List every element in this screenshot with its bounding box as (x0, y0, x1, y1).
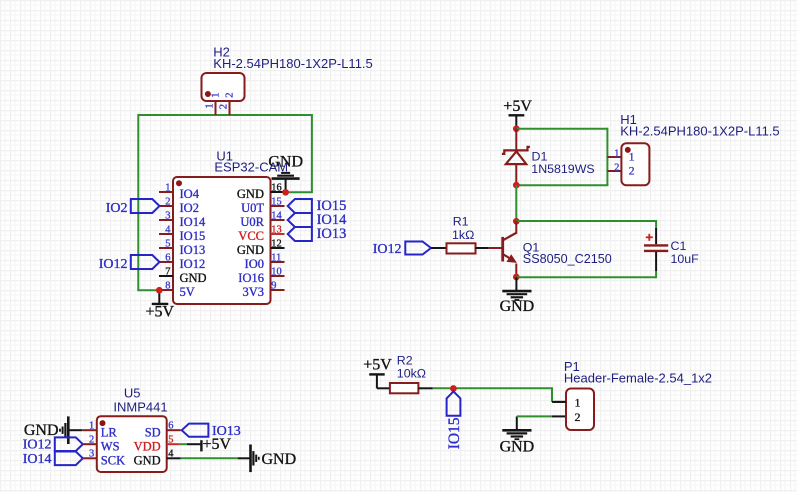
svg-text:2: 2 (218, 104, 229, 109)
svg-text:U0R: U0R (240, 215, 264, 229)
connector P1 (554, 389, 594, 431)
net flag IO15 (vertical) (446, 391, 463, 449)
wire GND to P1 pin 2 (517, 415, 566, 417)
svg-text:2: 2 (89, 434, 94, 445)
wire H2 pin1 to +5V rail (left vertical) (137, 114, 312, 290)
net flag IO13 (U1 right) (288, 226, 347, 242)
resistor R2 (390, 383, 419, 393)
svg-text:LR: LR (101, 425, 118, 439)
svg-text:5: 5 (168, 434, 173, 445)
svg-text:KH-2.54PH180-1X2P-L11.5: KH-2.54PH180-1X2P-L11.5 (620, 124, 779, 139)
svg-text:3: 3 (89, 449, 94, 460)
net flag IO14 (U5 pin 3) (23, 452, 83, 467)
net flag IO15 (U1 right) (288, 198, 347, 214)
svg-text:+5V: +5V (146, 304, 175, 321)
power symbol +5V (R2) (363, 356, 392, 388)
svg-text:10: 10 (271, 267, 281, 278)
U1 pin 4 (IO15) (159, 225, 205, 244)
wire +5V to H1 pin 1 (516, 128, 607, 186)
svg-text:IO0: IO0 (245, 257, 264, 271)
U1 pin 7 (GND) (159, 267, 207, 286)
svg-text:R2: R2 (397, 354, 413, 368)
svg-text:IO15: IO15 (446, 417, 463, 449)
svg-text:IO12: IO12 (373, 242, 402, 257)
junction at U1 pin 16 (282, 189, 289, 196)
U5 pin 4 (GND) (134, 449, 181, 468)
U1 pin 6 (IO12) (159, 253, 205, 272)
U5 pin-1 marker dot (100, 420, 106, 426)
wire +5V to R2 (377, 387, 390, 389)
wire emitter node to C1 bottom (516, 271, 656, 279)
svg-text:6: 6 (165, 253, 170, 264)
net flag IO12 (U1 pin 6) (99, 255, 160, 272)
U5 pin 3 (SCK) (83, 449, 125, 468)
svg-text:IO2: IO2 (180, 201, 199, 215)
svg-text:11: 11 (271, 253, 281, 264)
svg-text:1: 1 (629, 149, 635, 163)
svg-text:2: 2 (629, 163, 635, 177)
resistor R1 (447, 243, 476, 253)
svg-text:IO16: IO16 (238, 271, 264, 285)
U1 pin 14 (U0R) (240, 211, 284, 230)
svg-text:1: 1 (614, 148, 619, 159)
U5 pin 2 (WS) (83, 434, 120, 453)
transistor Q1 (NPN) (489, 221, 517, 277)
svg-text:VCC: VCC (238, 229, 264, 243)
svg-text:IO15: IO15 (180, 229, 206, 243)
junction IO15 node (450, 385, 457, 392)
svg-text:13: 13 (271, 225, 281, 236)
svg-text:IO13: IO13 (317, 226, 347, 242)
U1 pin 11 (IO0) (245, 253, 285, 272)
svg-text:10uF: 10uF (671, 252, 700, 266)
svg-text:1: 1 (165, 183, 170, 194)
svg-text:GND: GND (180, 271, 207, 285)
wire R1 to Q1 base (476, 247, 489, 249)
diode D1 (1N5819WS) (502, 129, 530, 186)
svg-text:2: 2 (165, 197, 170, 208)
svg-text:+5V: +5V (503, 98, 532, 115)
power symbol GND (U5 pin 4, rotated) (251, 445, 297, 473)
svg-text:1: 1 (210, 93, 221, 98)
net flag IO13 (U5 pin 6) (182, 424, 241, 439)
svg-text:5: 5 (165, 239, 170, 250)
svg-text:INMP441: INMP441 (113, 399, 167, 414)
wire U5 pin 4 to GND (181, 457, 251, 459)
svg-text:5V: 5V (180, 285, 195, 299)
net flag IO2 (U1 pin 2) (106, 199, 160, 216)
wire D1 anode to Q1 collector (515, 185, 517, 221)
svg-text:16: 16 (271, 183, 281, 194)
wire collector node to C1 top (516, 220, 656, 229)
svg-text:GND: GND (237, 187, 264, 201)
net flag IO12 (R1 input) (373, 242, 431, 258)
svg-text:SS8050_C2150: SS8050_C2150 (523, 252, 612, 266)
svg-text:1: 1 (204, 103, 215, 108)
wire H1 pin 2 to D1 anode (516, 184, 608, 186)
net flag IO12 (U5 pin 2) (23, 437, 83, 452)
U1 pin 9 (3V3) (242, 281, 284, 300)
svg-text:IO12: IO12 (23, 438, 52, 453)
svg-text:KH-2.54PH180-1X2P-L11.5: KH-2.54PH180-1X2P-L11.5 (213, 56, 372, 71)
svg-text:IO14: IO14 (23, 452, 52, 467)
svg-text:IO4: IO4 (180, 187, 200, 201)
svg-text:15: 15 (271, 197, 281, 208)
svg-text:3: 3 (165, 211, 170, 222)
capacitor C1 (polarized) (644, 228, 668, 271)
junction D1 anode (513, 182, 520, 189)
power symbol +5V (U5 pin 5, rotated) (180, 436, 232, 453)
U1 pin 3 (IO14) (159, 211, 206, 230)
svg-text:4: 4 (165, 225, 171, 236)
IC U5 body (97, 416, 167, 472)
svg-text:WS: WS (101, 439, 120, 453)
U1 pin 5 (IO13) (159, 239, 205, 258)
svg-text:1N5819WS: 1N5819WS (531, 162, 594, 176)
power symbol GND (U5 pin 1, rotated) (24, 416, 68, 444)
U1 pin 2 (IO2) (159, 197, 199, 216)
svg-text:+5V: +5V (363, 356, 392, 373)
U1 pin 13 (VCC) (238, 225, 284, 244)
net flag IO14 (U1 right) (288, 212, 347, 228)
svg-text:7: 7 (165, 267, 170, 278)
svg-text:GND: GND (134, 454, 161, 468)
connector H1 (607, 143, 649, 185)
junction +5V node (513, 125, 520, 132)
svg-text:10kΩ: 10kΩ (397, 367, 426, 381)
svg-text:Header-Female-2.54_1x2: Header-Female-2.54_1x2 (564, 370, 712, 385)
svg-text:GND: GND (268, 154, 303, 171)
U1 pin 15 (U0T) (241, 197, 284, 216)
U1 pin-1 marker dot (176, 180, 182, 186)
svg-text:+5V: +5V (203, 436, 232, 453)
svg-text:2: 2 (224, 93, 235, 98)
svg-text:1kΩ: 1kΩ (452, 228, 474, 242)
U1 pin 8 (5V) (159, 281, 195, 300)
svg-text:GND: GND (237, 243, 264, 257)
U1 pin 10 (IO16) (238, 267, 284, 286)
svg-text:SCK: SCK (101, 454, 125, 468)
svg-text:4: 4 (168, 449, 174, 460)
power symbol GND (U1 pin 16) (268, 154, 303, 193)
power symbol +5V (U1 pin 8) (146, 290, 175, 320)
wire GND to U5 pin 1 (68, 429, 82, 431)
U5 pin 6 (SD) (145, 420, 181, 439)
svg-text:IO2: IO2 (106, 201, 128, 216)
svg-text:U0T: U0T (241, 201, 264, 215)
IC U1 body (173, 177, 271, 304)
U5 pin 1 (LR) (83, 420, 118, 439)
junction Q1 emitter node (513, 274, 520, 281)
svg-text:1: 1 (575, 395, 581, 409)
svg-text:8: 8 (165, 281, 170, 292)
svg-text:12: 12 (271, 239, 281, 250)
svg-text:14: 14 (271, 211, 282, 222)
wire H2 pin2 to GND (right vertical) (286, 114, 313, 192)
junction Q1 collector node (513, 218, 520, 225)
svg-text:2: 2 (575, 410, 581, 424)
svg-text:6: 6 (168, 420, 173, 431)
svg-text:IO12: IO12 (99, 257, 128, 272)
U1 pin 1 (IO4) (159, 183, 200, 202)
connector H2 (202, 73, 245, 115)
power symbol GND (Q1 emitter) (500, 277, 535, 315)
svg-text:IO13: IO13 (180, 243, 206, 257)
power symbol +5V (above D1) (503, 98, 532, 129)
svg-text:GND: GND (500, 439, 535, 456)
svg-text:GND: GND (500, 298, 535, 315)
svg-text:U5: U5 (124, 385, 141, 400)
wire IO12 flag to R1 (431, 247, 447, 249)
svg-text:C1: C1 (671, 239, 687, 253)
svg-text:1: 1 (89, 420, 94, 431)
svg-text:2: 2 (614, 162, 619, 173)
U5 pin 5 (VDD) (134, 434, 180, 453)
svg-text:GND: GND (24, 422, 59, 439)
svg-text:IO14: IO14 (180, 215, 206, 229)
wire R2 to P1 pin 1 (418, 387, 566, 402)
junction at U1 pin 8 (156, 287, 163, 294)
svg-text:VDD: VDD (134, 439, 161, 453)
svg-text:3V3: 3V3 (242, 285, 264, 299)
svg-text:SD: SD (145, 425, 161, 439)
svg-text:R1: R1 (453, 215, 469, 229)
svg-text:GND: GND (262, 451, 297, 468)
svg-text:IO12: IO12 (180, 257, 206, 271)
svg-text:9: 9 (271, 281, 276, 292)
U1 pin 12 (GND) (237, 239, 285, 258)
power symbol GND (P1 pin 2) (500, 416, 535, 455)
U1 pin 16 (GND) (237, 183, 285, 202)
